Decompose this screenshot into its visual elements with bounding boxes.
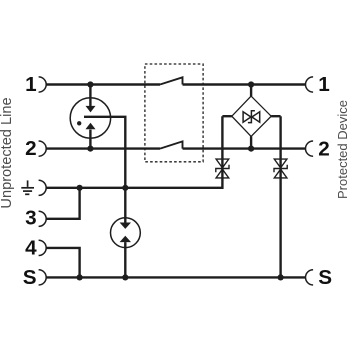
svg-text:2: 2 <box>318 138 330 161</box>
svg-text:1: 1 <box>25 73 37 96</box>
svg-text:Unprotected Line: Unprotected Line <box>0 97 15 208</box>
svg-text:Protected Device: Protected Device <box>335 100 350 199</box>
svg-text:3: 3 <box>25 206 37 229</box>
svg-text:1: 1 <box>318 73 330 96</box>
svg-text:S: S <box>318 266 332 289</box>
svg-text:2: 2 <box>25 137 37 160</box>
svg-text:4: 4 <box>25 236 37 259</box>
svg-text:S: S <box>23 266 37 289</box>
